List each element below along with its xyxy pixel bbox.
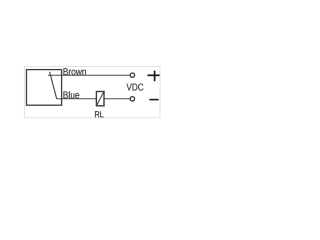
terminal circle - (bottom)	[130, 97, 134, 101]
wire brown (top)	[48, 74, 130, 76]
resistor RL diagonal	[97, 92, 104, 105]
plus symbol	[148, 71, 160, 82]
sensor box (proximity switch body)	[27, 70, 62, 106]
label Brown	[63, 68, 85, 75]
terminal circle + (top)	[130, 73, 134, 77]
wire blue (bottom)	[57, 98, 130, 100]
label Blue	[63, 91, 79, 98]
switch contact (diagonal blade)	[50, 72, 57, 99]
minus symbol	[149, 99, 158, 101]
label VDC	[126, 84, 143, 91]
canvas frame	[24, 67, 160, 118]
label RL	[95, 111, 104, 117]
load resistor RL	[96, 92, 104, 106]
